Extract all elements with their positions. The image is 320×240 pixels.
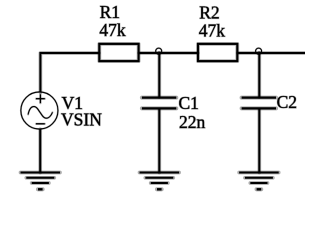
wire V1 bottom pin to left ground [38, 129, 42, 172]
ground (right, 0 net) [239, 173, 279, 190]
node A junction circle [156, 48, 162, 54]
svg-text:C1: C1 [179, 93, 199, 113]
label C1 [179, 93, 199, 113]
V1 minus sign [36, 123, 45, 125]
wire from V1 top to corner up to R1 (net IN) [40, 53, 99, 92]
wire node A to R2 left pin [159, 51, 198, 55]
wire C1 bottom plate to middle ground [157, 110, 161, 173]
svg-text:C2: C2 [277, 92, 297, 112]
ground (middle, 0 net) [140, 173, 180, 190]
capacitor C1 [142, 98, 176, 109]
value label 47k (R1) [99, 20, 126, 40]
label R1 [100, 2, 120, 22]
wire node B down to C2 top plate [257, 53, 261, 97]
node B junction circle [256, 48, 262, 54]
label R2 [199, 2, 219, 22]
resistor R2 [198, 44, 237, 61]
wire node A down to C1 top plate [157, 53, 161, 97]
svg-text:47k: 47k [199, 20, 226, 40]
wire R2 right pin to node B [238, 51, 259, 55]
value label VSIN [61, 109, 102, 129]
svg-text:VSIN: VSIN [61, 109, 102, 129]
wire C2 bottom plate to right ground [257, 110, 261, 173]
svg-text:22n: 22n [179, 112, 206, 132]
svg-text:R1: R1 [100, 2, 120, 22]
svg-text:R2: R2 [199, 2, 219, 22]
wire node B to right edge (net OUT) [259, 51, 306, 55]
value label 22n (C1) [179, 112, 206, 132]
V1 sine wave symbol [28, 107, 52, 119]
label C2 [277, 92, 297, 112]
svg-text:47k: 47k [99, 20, 126, 40]
ground (left, 0 net) [21, 173, 61, 190]
capacitor C2 [242, 98, 276, 109]
V1 plus sign [36, 94, 45, 103]
value label 47k (R2) [199, 20, 226, 40]
label V1 [62, 93, 83, 113]
resistor R1 [99, 44, 138, 61]
voltage source V1 circle body [21, 92, 58, 129]
wire R1 right pin to node A [139, 51, 159, 55]
